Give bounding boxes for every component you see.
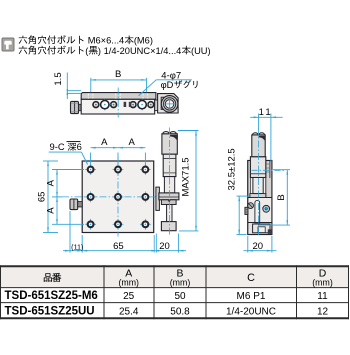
svg-text:1: 1 xyxy=(265,107,270,118)
svg-text:(11): (11) xyxy=(71,242,83,251)
svg-text:A: A xyxy=(129,137,136,148)
plan: micrometer ratchet knob xyxy=(162,134,177,154)
table header texts xyxy=(44,273,52,281)
side view: carriage slot marks xyxy=(124,102,127,107)
dim A A (top) xyxy=(90,153,92,166)
svg-text:(mm): (mm) xyxy=(118,277,139,287)
svg-text:1/4-20UNC: 1/4-20UNC xyxy=(226,306,276,317)
dim B (right) xyxy=(273,169,290,171)
svg-text:50.8: 50.8 xyxy=(170,306,190,317)
plan: 9 tapped holes xyxy=(85,169,96,171)
svg-text:(UU): (UU) xyxy=(191,46,211,56)
sv: ratchet knob xyxy=(252,135,265,157)
side view: counterbore holes xyxy=(99,104,111,106)
svg-text:M6×6...4: M6×6...4 xyxy=(88,36,124,46)
svg-text:A: A xyxy=(46,179,57,186)
plan: plate xyxy=(82,161,154,233)
note line2 xyxy=(19,46,28,54)
svg-text:A: A xyxy=(101,137,108,148)
svg-text:11: 11 xyxy=(317,291,328,302)
bottom dim chain xyxy=(69,211,71,253)
sv: bottom split xyxy=(248,222,272,224)
svg-text:B: B xyxy=(115,69,121,80)
table header bg xyxy=(0,267,349,288)
svg-text:C: C xyxy=(247,272,255,284)
side view: X knob xyxy=(71,101,79,113)
plan: spindle xyxy=(167,205,172,222)
dim MAX71.5 xyxy=(178,130,199,132)
svg-text:1: 1 xyxy=(259,107,264,118)
plan: micrometer thimble xyxy=(163,154,176,176)
svg-text:M6 P1: M6 P1 xyxy=(237,291,266,302)
plan: knob shaft xyxy=(78,202,83,207)
bolt icon xyxy=(2,38,14,51)
plan: left knob xyxy=(70,199,78,210)
svg-text:): ) xyxy=(98,46,101,56)
svg-text:TSD-651SZ25-M6: TSD-651SZ25-M6 xyxy=(5,290,98,302)
sv: bottom blocks xyxy=(253,224,270,233)
plan: bracket left bar xyxy=(156,187,160,210)
plan: micrometer sleeve xyxy=(164,177,174,193)
sv: right screw xyxy=(263,205,270,212)
svg-text:φD: φD xyxy=(161,80,174,90)
svg-text:20: 20 xyxy=(159,241,170,252)
dim 65 (left) xyxy=(43,160,58,162)
svg-text:9-C: 9-C xyxy=(50,141,65,152)
plan: bottom block xyxy=(161,222,176,231)
sv: clamp screw xyxy=(248,203,254,209)
side view: top plate xyxy=(81,93,156,100)
svg-text:(mm): (mm) xyxy=(170,277,191,287)
svg-text:25: 25 xyxy=(123,291,135,302)
sv: thimble xyxy=(250,157,265,178)
note line1 xyxy=(19,36,28,44)
svg-text:B: B xyxy=(276,194,287,200)
svg-text:(mm): (mm) xyxy=(312,277,333,287)
svg-text:50: 50 xyxy=(174,291,186,302)
side view: hidden hole dashes xyxy=(87,93,89,98)
dim A A (left) xyxy=(52,169,84,171)
dim 11 (top) xyxy=(270,114,272,162)
sv: body frame xyxy=(248,161,272,235)
svg-text:6: 6 xyxy=(77,141,82,152)
sv: sleeve flange xyxy=(250,194,266,198)
svg-text:65: 65 xyxy=(37,192,48,203)
svg-text:TSD-651SZ25UU: TSD-651SZ25UU xyxy=(5,306,95,318)
svg-text:MAX71.5: MAX71.5 xyxy=(181,157,192,196)
sv: left knurl knob xyxy=(245,207,248,214)
table borders xyxy=(0,265,349,267)
plan: micrometer flange nut xyxy=(159,193,179,200)
sv: vernier ticks xyxy=(267,163,270,165)
side view: knob shaft xyxy=(79,104,82,110)
svg-text:12: 12 xyxy=(317,306,329,317)
svg-text:25.4: 25.4 xyxy=(119,306,139,317)
side view centerline xyxy=(117,88,119,118)
sv: sleeve xyxy=(253,178,263,194)
sv: platform split xyxy=(248,197,272,199)
svg-text:1.5: 1.5 xyxy=(53,72,64,85)
side view: micrometer end circles xyxy=(161,96,178,113)
side view: right bracket xyxy=(158,94,179,113)
sv: sleeve ref line xyxy=(252,169,286,171)
sv: slot cylinder xyxy=(255,200,260,222)
svg-text:20: 20 xyxy=(253,241,264,252)
dim 1.5 (left) xyxy=(67,90,81,92)
plan: centerlines xyxy=(62,196,158,198)
side view: screw heads row xyxy=(93,102,99,108)
svg-text:65: 65 xyxy=(113,241,124,252)
dim B (top) xyxy=(90,78,92,93)
sv: centerline xyxy=(258,128,260,237)
svg-text:(M6): (M6) xyxy=(134,36,153,46)
side view: gap piece xyxy=(155,100,158,111)
svg-text:32.5±12.5: 32.5±12.5 xyxy=(227,148,238,190)
svg-text:A: A xyxy=(46,207,57,214)
svg-text:1/4-20UNC×1/4...4: 1/4-20UNC×1/4...4 xyxy=(104,46,182,56)
side view: base block xyxy=(81,99,155,114)
dim 32.5+-12.5 (left) xyxy=(237,195,250,197)
plan: clamp block xyxy=(161,200,176,205)
dim 20 (bottom) xyxy=(247,236,249,253)
